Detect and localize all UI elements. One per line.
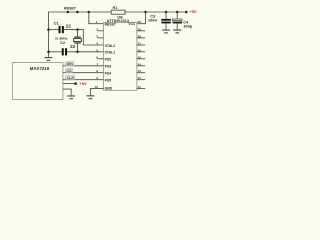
svg-text:11: 11 bbox=[138, 85, 142, 89]
svg-text:MAX7219: MAX7219 bbox=[30, 66, 50, 71]
svg-text:PD2: PD2 bbox=[105, 58, 112, 62]
net label CLK frame bbox=[66, 76, 75, 80]
pin stub 15 right bbox=[137, 58, 146, 60]
junction pin20 riser bbox=[144, 11, 147, 14]
capacitor C2 22p bbox=[62, 48, 67, 55]
wire MAX7219 V+ pin bbox=[63, 83, 75, 85]
terminal dot +5V MAX7219 bbox=[74, 82, 77, 85]
wire crystal bottom stem bbox=[77, 44, 79, 52]
junction C3 bbox=[165, 11, 168, 14]
svg-text:C2: C2 bbox=[60, 40, 66, 45]
wire C4 bottom to ground bbox=[176, 23, 178, 29]
svg-text:100n: 100n bbox=[148, 18, 158, 23]
capacitor C4 plates (polarized) bbox=[173, 19, 183, 23]
wire CS MAX7219 to PD4 bbox=[63, 72, 104, 74]
pin stub 6 left bbox=[98, 58, 104, 60]
junction RESET branch to pin 1 bbox=[88, 11, 91, 14]
terminal dot +5V top right bbox=[185, 11, 188, 14]
svg-text:12: 12 bbox=[138, 76, 142, 80]
svg-text:DIN: DIN bbox=[67, 62, 74, 66]
svg-text:15: 15 bbox=[138, 55, 142, 59]
wire MAX7219 GND pin bbox=[63, 89, 71, 95]
capacitor C1 22p bbox=[59, 26, 64, 33]
svg-text:+5V: +5V bbox=[190, 9, 198, 14]
svg-text:CLK: CLK bbox=[67, 76, 75, 80]
svg-text:CS: CS bbox=[67, 69, 73, 73]
svg-text:XTAL1: XTAL1 bbox=[105, 51, 116, 55]
wire +5V rail bbox=[125, 11, 185, 13]
svg-text:R1: R1 bbox=[113, 6, 118, 10]
svg-text:+5V: +5V bbox=[79, 81, 87, 86]
svg-text:PD5: PD5 bbox=[105, 79, 112, 83]
junction on RESET wire (left) bbox=[67, 11, 70, 14]
svg-text:20: 20 bbox=[138, 20, 142, 24]
wire crystal top stem bbox=[77, 30, 79, 37]
pin stub 13 right bbox=[137, 72, 146, 74]
svg-text:19: 19 bbox=[138, 27, 142, 31]
pin stub 19 right bbox=[137, 30, 146, 32]
wire CLK MAX7219 to PD5 bbox=[63, 79, 104, 81]
junction C1 on rail bbox=[47, 28, 50, 31]
wire C2 to XTAL1 pin 5 bbox=[67, 51, 104, 53]
svg-text:PD4: PD4 bbox=[105, 72, 112, 76]
wire RESET branch down to IC pin 1 bbox=[89, 12, 104, 24]
svg-text:VCC: VCC bbox=[128, 22, 136, 26]
svg-text:XTAL2: XTAL2 bbox=[105, 44, 116, 48]
svg-text:17: 17 bbox=[138, 42, 142, 46]
wire ground rail to C1 bbox=[49, 29, 60, 31]
pin stub 17 right bbox=[137, 44, 146, 46]
junction crystal bottom bbox=[76, 51, 79, 54]
svg-text:100µ: 100µ bbox=[183, 24, 193, 29]
net label CS frame bbox=[66, 69, 73, 73]
wire DIN MAX7219 to PD3 bbox=[63, 65, 104, 67]
pin stub 3 left bbox=[98, 37, 104, 39]
pin stub 16 right bbox=[137, 51, 146, 53]
ground MAX7219 bbox=[67, 96, 75, 99]
pin stub 14 right bbox=[137, 65, 146, 67]
wire RESET net top rail and caps ground rail bbox=[49, 12, 112, 57]
svg-text:18: 18 bbox=[138, 34, 142, 38]
svg-text:RESET: RESET bbox=[105, 23, 117, 27]
wire C3 bottom to ground bbox=[165, 23, 167, 29]
junction crystal top bbox=[76, 28, 79, 31]
svg-text:22: 22 bbox=[70, 44, 76, 49]
wire pin 10 GND to ground bbox=[90, 89, 103, 96]
svg-text:22: 22 bbox=[66, 23, 72, 28]
ground C4 bbox=[173, 30, 181, 33]
wire ground rail to C2 bbox=[49, 51, 62, 53]
junction C4 bbox=[176, 11, 179, 14]
pin stub 12 right bbox=[137, 79, 146, 81]
svg-text:C1: C1 bbox=[54, 21, 60, 26]
wire +5V rail down to VCC pin 20 bbox=[137, 12, 146, 24]
svg-text:RESET: RESET bbox=[64, 6, 77, 10]
svg-text:14: 14 bbox=[138, 62, 142, 66]
svg-text:PD3: PD3 bbox=[105, 65, 112, 69]
ground IC pin 10 bbox=[87, 96, 95, 99]
junction on RESET wire (right) bbox=[76, 11, 79, 14]
wire C1 to XTAL2 pin 4 bbox=[64, 30, 104, 45]
ground C3 bbox=[162, 30, 170, 33]
svg-text:13: 13 bbox=[138, 69, 142, 73]
IC U1 ATTINY2313 body bbox=[104, 23, 137, 91]
resistor R1 body bbox=[111, 10, 125, 14]
crystal X1 bbox=[74, 37, 82, 44]
capacitor C3 plates bbox=[161, 19, 171, 24]
net label DIN frame bbox=[66, 62, 74, 66]
junction C2 on rail bbox=[47, 51, 50, 54]
ground (crystal caps rail) bbox=[45, 58, 53, 61]
wire +5V rail to C4 top bbox=[176, 12, 178, 19]
pin stub 18 right bbox=[137, 37, 146, 39]
pin stub 2 left bbox=[98, 30, 104, 32]
wire +5V rail to C3 top bbox=[165, 12, 167, 19]
IC U2 MAX7219 body bbox=[13, 63, 63, 100]
svg-text:16: 16 bbox=[138, 48, 142, 52]
svg-text:GND: GND bbox=[105, 86, 113, 90]
pin stub 11 right bbox=[137, 88, 146, 90]
